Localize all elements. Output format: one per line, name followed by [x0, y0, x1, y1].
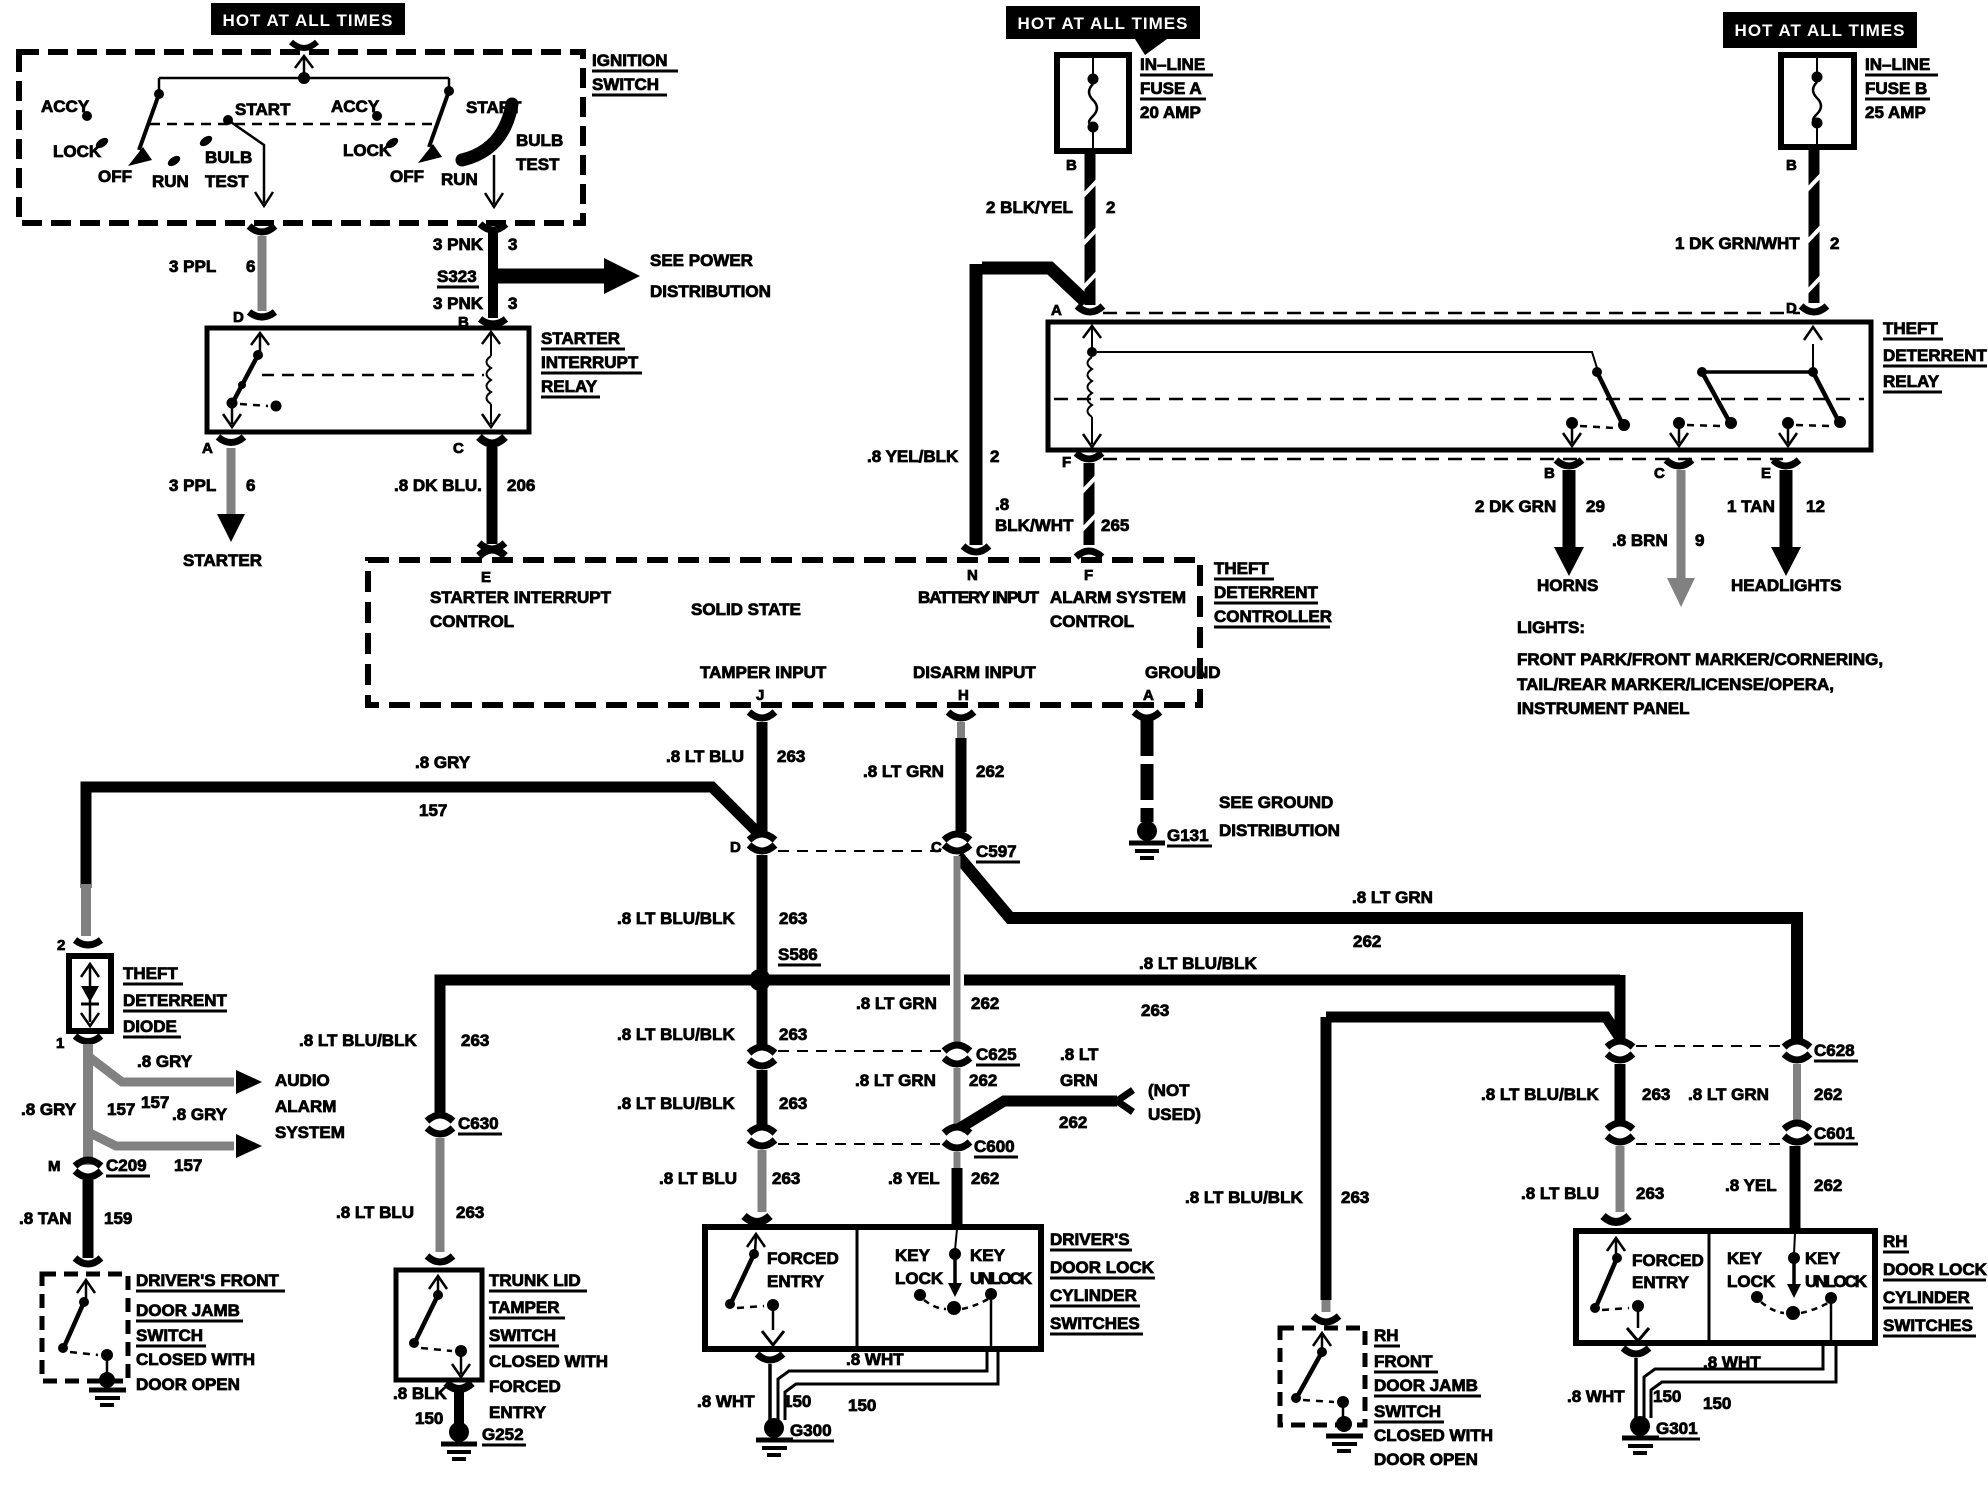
position labels right bank: [331, 97, 563, 189]
wire .8 LT BLU/BLK 263 down: [1321, 1017, 1332, 1300]
svg-text:.8 LT BLU: .8 LT BLU: [336, 1203, 414, 1222]
svg-text:262: 262: [1814, 1085, 1842, 1104]
svg-text:.8 BRN: .8 BRN: [1612, 531, 1668, 550]
svg-text:.8 GRY: .8 GRY: [21, 1100, 77, 1119]
svg-text:.8 LT BLU/BLK: .8 LT BLU/BLK: [1185, 1188, 1303, 1207]
relay coil: [482, 332, 500, 427]
svg-text:TAMPER: TAMPER: [489, 1298, 560, 1317]
svg-text:F: F: [1062, 454, 1071, 471]
svg-text:CLOSED WITH: CLOSED WITH: [1374, 1426, 1493, 1445]
svg-text:CYLINDER: CYLINDER: [1883, 1288, 1970, 1307]
wire below S586: [757, 985, 768, 1048]
theft deterrent relay box: [1048, 322, 1871, 450]
starter interrupt relay label: [541, 329, 642, 397]
connector under ignition left output: [249, 226, 275, 232]
svg-text:KEY: KEY: [1805, 1249, 1841, 1268]
svg-text:.8 LT: .8 LT: [1060, 1045, 1099, 1064]
ignition switch dashed box: [19, 52, 583, 223]
svg-text:.8 GRY: .8 GRY: [415, 753, 471, 772]
svg-text:RELAY: RELAY: [1883, 372, 1940, 391]
svg-text:TAIL/REAR MARKER/LICENSE/OPERA: TAIL/REAR MARKER/LICENSE/OPERA,: [1517, 675, 1834, 694]
svg-text:DISARM INPUT: DISARM INPUT: [913, 663, 1036, 682]
svg-text:C: C: [1654, 465, 1665, 482]
svg-text:FORCED: FORCED: [489, 1377, 561, 1396]
svg-text:UNLOCK: UNLOCK: [970, 1269, 1033, 1288]
svg-text:DOOR LOCK: DOOR LOCK: [1883, 1260, 1988, 1279]
wire .8 LT GRN 262 (gray): [954, 1068, 961, 1128]
svg-text:.8 WHT: .8 WHT: [1567, 1387, 1625, 1406]
svg-text:STARTER: STARTER: [541, 329, 620, 348]
svg-text:159: 159: [104, 1209, 132, 1228]
svg-text:HEADLIGHTS: HEADLIGHTS: [1731, 576, 1842, 595]
position labels left bank: [41, 97, 291, 191]
svg-text:CONTROL: CONTROL: [1050, 612, 1134, 631]
svg-text:DRIVER'S: DRIVER'S: [1050, 1230, 1130, 1249]
svg-text:6: 6: [246, 257, 255, 276]
svg-text:OFF: OFF: [98, 167, 132, 186]
wire .8 GRY 157 long bus: [86, 787, 758, 888]
connector pair at C601 row (left): [1607, 1123, 1633, 1129]
svg-text:D: D: [730, 839, 741, 856]
svg-text:.8 YEL: .8 YEL: [1725, 1176, 1777, 1195]
svg-text:LOCK: LOCK: [53, 142, 102, 161]
svg-text:D: D: [233, 309, 244, 326]
svg-text:157: 157: [174, 1156, 202, 1175]
svg-text:29: 29: [1586, 497, 1605, 516]
svg-text:FRONT PARK/FRONT MARKER/CORNER: FRONT PARK/FRONT MARKER/CORNERING,: [1517, 650, 1883, 669]
svg-text:USED): USED): [1148, 1105, 1201, 1124]
driver's front door jamb switch dashed box: [42, 1274, 128, 1381]
svg-text:C601: C601: [1814, 1124, 1855, 1143]
svg-text:A: A: [1143, 687, 1154, 704]
hot-at-all-times box 1: [211, 3, 405, 35]
svg-text:STARTER: STARTER: [183, 551, 262, 570]
connector C600: [944, 1127, 970, 1133]
relay coil: [1083, 326, 1101, 447]
svg-text:D: D: [1786, 300, 1797, 317]
svg-text:DIODE: DIODE: [123, 1017, 177, 1036]
svg-text:IN–LINE: IN–LINE: [1140, 55, 1205, 74]
svg-text:F: F: [1084, 567, 1093, 584]
relay internal switch: [223, 333, 282, 427]
driver's front door jamb switch label: [136, 1271, 285, 1394]
svg-text:OFF: OFF: [390, 167, 424, 186]
svg-text:G300: G300: [790, 1421, 832, 1440]
ground wire from pin A: [1141, 720, 1154, 822]
svg-text:LOCK: LOCK: [343, 141, 392, 160]
wire .8 YEL 262 into cylinder switch: [954, 1152, 961, 1170]
heavy actuator swoosh in START position: [462, 104, 512, 160]
wire .8 BLK 150 to ground: [446, 1383, 472, 1389]
svg-text:SEE POWER: SEE POWER: [650, 251, 753, 270]
dashed link D to C597: [778, 850, 942, 852]
svg-text:B: B: [1066, 157, 1077, 174]
svg-text:THEFT: THEFT: [123, 964, 178, 983]
gry splice wires to audio alarm system: [88, 1044, 262, 1165]
svg-text:9: 9: [1695, 531, 1704, 550]
svg-text:LIGHTS:: LIGHTS:: [1517, 618, 1585, 637]
svg-text:FUSE B: FUSE B: [1865, 79, 1927, 98]
svg-text:RH: RH: [1883, 1232, 1908, 1251]
connector C630: [427, 1115, 453, 1121]
svg-text:2: 2: [990, 447, 999, 466]
svg-text:SWITCH: SWITCH: [1374, 1402, 1441, 1421]
svg-text:CYLINDER: CYLINDER: [1050, 1286, 1137, 1305]
svg-text:DISTRIBUTION: DISTRIBUTION: [1219, 821, 1340, 840]
theft deterrent diode: [69, 956, 111, 1031]
svg-text:TRUNK LID: TRUNK LID: [489, 1271, 581, 1290]
controller pin labels: [430, 567, 1221, 704]
ground G131: [1129, 821, 1212, 858]
rh front door jamb switch dashed box: [1280, 1328, 1365, 1425]
wire .8 LT BLU/BLK 263 bus left to C630: [440, 980, 752, 1116]
svg-text:BULB: BULB: [205, 148, 252, 167]
svg-text:3 PNK: 3 PNK: [433, 235, 484, 254]
svg-text:3 PNK: 3 PNK: [433, 294, 484, 313]
node E theft deterrent relay / headlights output: [1727, 460, 1842, 595]
right switch blade: [418, 78, 454, 163]
svg-text:IN–LINE: IN–LINE: [1865, 55, 1930, 74]
svg-text:.8 WHT: .8 WHT: [1703, 1353, 1761, 1372]
left switch blade: [128, 78, 164, 166]
svg-text:3: 3: [508, 235, 517, 254]
svg-text:ENTRY: ENTRY: [767, 1272, 825, 1291]
starter interrupt relay box: [207, 328, 529, 432]
svg-text:TAMPER INPUT: TAMPER INPUT: [700, 663, 827, 682]
wire bus inside ignition switch: [159, 77, 449, 80]
svg-text:263: 263: [777, 747, 805, 766]
svg-text:263: 263: [779, 1025, 807, 1044]
connector C625: [944, 1045, 970, 1051]
svg-text:.8 LT GRN: .8 LT GRN: [855, 1071, 936, 1090]
relay internal dashed line: [1054, 398, 1864, 401]
svg-text:DETERRENT: DETERRENT: [1214, 583, 1319, 602]
wire 3 PPL (gray): [258, 236, 267, 311]
svg-text:2: 2: [1106, 198, 1115, 217]
svg-text:263: 263: [1141, 1001, 1169, 1020]
svg-text:.8 GRY: .8 GRY: [137, 1052, 193, 1071]
node C theft deterrent relay / brn output: [1612, 460, 1704, 607]
svg-text:ENTRY: ENTRY: [1632, 1273, 1690, 1292]
rh forced entry switch: [1590, 1238, 1704, 1341]
svg-text:3 PPL: 3 PPL: [169, 476, 216, 495]
svg-text:(NOT: (NOT: [1148, 1081, 1190, 1100]
svg-text:C628: C628: [1814, 1041, 1855, 1060]
svg-text:.8 LT BLU/BLK: .8 LT BLU/BLK: [617, 1025, 735, 1044]
svg-text:STARTER INTERRUPT: STARTER INTERRUPT: [430, 588, 612, 607]
svg-text:.8 LT BLU/BLK: .8 LT BLU/BLK: [617, 1094, 735, 1113]
internal dashed line: [150, 123, 438, 126]
svg-text:GROUND: GROUND: [1145, 663, 1221, 682]
connector pair at C600 row (left): [749, 1127, 775, 1133]
svg-text:.8: .8: [995, 495, 1009, 514]
svg-text:262: 262: [971, 1169, 999, 1188]
svg-text:ALARM: ALARM: [275, 1097, 336, 1116]
svg-text:CONTROL: CONTROL: [430, 612, 514, 631]
svg-text:G131: G131: [1167, 826, 1209, 845]
svg-text:.8 WHT: .8 WHT: [846, 1350, 904, 1369]
connector C628: [1784, 1041, 1810, 1047]
svg-text:LOCK: LOCK: [895, 1269, 944, 1288]
svg-text:20 AMP: 20 AMP: [1140, 103, 1201, 122]
svg-text:BULB: BULB: [516, 131, 563, 150]
rh jamb feed bus: [1326, 1017, 1620, 1038]
wire .8 LT BLU/BLK 263 bus right: [768, 975, 950, 986]
relay internal dashed link: [262, 374, 484, 377]
svg-text:HOT AT ALL TIMES: HOT AT ALL TIMES: [1018, 14, 1189, 33]
svg-text:.8 LT BLU: .8 LT BLU: [659, 1169, 737, 1188]
svg-text:ALARM SYSTEM: ALARM SYSTEM: [1050, 588, 1186, 607]
controller title: [1214, 559, 1332, 627]
svg-text:C: C: [931, 839, 942, 856]
wire .8 LT BLU/BLK 263: [1615, 1064, 1626, 1124]
svg-text:DRIVER'S FRONT: DRIVER'S FRONT: [136, 1271, 279, 1290]
connector A below controller: [1134, 712, 1160, 718]
wire .8 BLK/WHT 265 (crossed): [995, 463, 1129, 557]
svg-text:THEFT: THEFT: [1214, 559, 1269, 578]
svg-text:.8 LT BLU/BLK: .8 LT BLU/BLK: [1481, 1085, 1599, 1104]
svg-text:.8 LT GRN: .8 LT GRN: [863, 762, 944, 781]
svg-text:E: E: [481, 569, 491, 586]
svg-text:RH: RH: [1374, 1326, 1399, 1345]
dashed link to C625: [778, 1050, 944, 1052]
svg-text:12: 12: [1806, 497, 1825, 516]
wire .8 YEL 262 into rh cylinder: [1790, 1146, 1801, 1231]
svg-text:263: 263: [779, 909, 807, 928]
svg-text:2 DK GRN: 2 DK GRN: [1475, 497, 1556, 516]
wire .8 LT BLU/BLK 263 to S586: [757, 855, 768, 978]
svg-text:.8 GRY: .8 GRY: [172, 1105, 228, 1124]
svg-text:265: 265: [1101, 516, 1129, 535]
relay switch 3: [1779, 327, 1846, 446]
svg-text:1: 1: [56, 1035, 64, 1052]
svg-text:DETERRENT: DETERRENT: [123, 991, 228, 1010]
svg-text:263: 263: [772, 1169, 800, 1188]
svg-text:ACCY: ACCY: [331, 97, 380, 116]
svg-text:3 PPL: 3 PPL: [169, 257, 216, 276]
wire .8 YEL/BLK branch to battery input: [867, 264, 1086, 545]
theft deterrent diode label: [123, 964, 228, 1037]
connector C601: [1784, 1123, 1810, 1129]
in-line fuse A: [1057, 55, 1213, 151]
svg-text:UNLOCK: UNLOCK: [1805, 1272, 1868, 1291]
relay switch 2: [1670, 367, 1813, 446]
svg-text:.8 DK BLU.: .8 DK BLU.: [394, 476, 482, 495]
svg-text:IGNITION: IGNITION: [592, 51, 668, 70]
rh door lock cylinder switches label: [1883, 1232, 1988, 1336]
splice arrow to see power distribution: [497, 251, 771, 301]
svg-text:HOT AT ALL TIMES: HOT AT ALL TIMES: [223, 11, 394, 30]
dashed link to C628: [1636, 1045, 1780, 1047]
svg-text:ACCY: ACCY: [41, 97, 90, 116]
rh front door jamb switch label: [1374, 1326, 1493, 1469]
dashed link F to outputs below relay: [1103, 458, 1783, 461]
svg-text:M: M: [48, 1158, 61, 1175]
svg-text:262: 262: [969, 1071, 997, 1090]
svg-text:263: 263: [456, 1203, 484, 1222]
svg-text:E: E: [1761, 465, 1771, 482]
dashed link A to D above relay: [1103, 312, 1800, 315]
in-line fuse B: [1781, 55, 1938, 147]
svg-text:2: 2: [1830, 234, 1839, 253]
node B theft deterrent relay / horns output: [1475, 460, 1605, 595]
svg-text:GRN: GRN: [1060, 1071, 1098, 1090]
svg-text:ENTRY: ENTRY: [489, 1403, 547, 1422]
wire .8 LT BLU 263 from J: [757, 722, 768, 834]
ground G252: [441, 1422, 526, 1459]
svg-text:SWITCH: SWITCH: [592, 75, 659, 94]
wire .8 LT BLU 263 (gray): [436, 1138, 445, 1252]
svg-text:.8 LT GRN: .8 LT GRN: [1688, 1085, 1769, 1104]
trunk lid tamper switch box: [396, 1270, 482, 1380]
svg-text:.8 WHT: .8 WHT: [697, 1392, 755, 1411]
dashed link to C601: [1636, 1143, 1780, 1145]
svg-text:H: H: [958, 687, 969, 704]
svg-text:2 BLK/YEL: 2 BLK/YEL: [986, 198, 1073, 217]
svg-text:1 TAN: 1 TAN: [1727, 497, 1775, 516]
wire 1 DK GRN/WHT 2 (crossed): [1675, 147, 1839, 303]
svg-text:150: 150: [1653, 1387, 1681, 1406]
svg-text:150: 150: [848, 1396, 876, 1415]
driver's door lock cylinder switches label: [1050, 1230, 1155, 1334]
svg-text:262: 262: [1814, 1176, 1842, 1195]
start contact wire to connector: [228, 120, 264, 203]
svg-text:DOOR JAMB: DOOR JAMB: [1374, 1376, 1478, 1395]
svg-text:BLK/WHT: BLK/WHT: [995, 516, 1074, 535]
svg-text:TEST: TEST: [516, 155, 560, 174]
svg-text:SYSTEM: SYSTEM: [275, 1123, 345, 1142]
theft deterrent relay label: [1883, 319, 1988, 392]
svg-text:START: START: [235, 100, 291, 119]
svg-text:.8 LT BLU/BLK: .8 LT BLU/BLK: [617, 909, 735, 928]
connector H below controller: [948, 712, 974, 718]
svg-text:25 AMP: 25 AMP: [1865, 103, 1926, 122]
rh key lock / key unlock switch: [1727, 1233, 1868, 1340]
svg-text:A: A: [202, 440, 213, 457]
wire .8 DK BLU 206: [487, 447, 498, 544]
svg-text:SWITCH: SWITCH: [136, 1326, 203, 1345]
svg-text:DOOR OPEN: DOOR OPEN: [136, 1375, 240, 1394]
svg-text:.8 LT GRN: .8 LT GRN: [856, 994, 937, 1013]
svg-text:S323: S323: [437, 267, 477, 286]
svg-text:G301: G301: [1656, 1419, 1698, 1438]
connector J below controller: [749, 712, 775, 718]
svg-text:B: B: [1786, 157, 1797, 174]
svg-text:2: 2: [57, 937, 65, 954]
connector pair above C601 (left column): [1607, 1041, 1633, 1047]
svg-text:C209: C209: [106, 1156, 147, 1175]
svg-text:263: 263: [1636, 1184, 1664, 1203]
svg-text:SWITCHES: SWITCHES: [1050, 1314, 1140, 1333]
splice S586: [749, 969, 771, 991]
svg-text:DOOR LOCK: DOOR LOCK: [1050, 1258, 1155, 1277]
lights destination note: [1517, 618, 1883, 718]
svg-text:262: 262: [1059, 1113, 1087, 1132]
svg-text:157: 157: [141, 1093, 169, 1112]
svg-text:.8 BLK: .8 BLK: [393, 1384, 448, 1403]
svg-text:S586: S586: [778, 945, 818, 964]
wire .8 LT GRN 262 (gray): [1793, 1064, 1801, 1124]
dashed link to C600: [778, 1143, 940, 1145]
svg-text:KEY: KEY: [970, 1246, 1006, 1265]
svg-text:C630: C630: [458, 1114, 499, 1133]
svg-text:RELAY: RELAY: [541, 377, 598, 396]
svg-text:FUSE A: FUSE A: [1140, 79, 1202, 98]
wire .8 LT BLU 263 (gray) into rh cylinder: [1616, 1146, 1625, 1212]
trunk lid tamper switch label: [489, 1271, 608, 1422]
svg-text:B: B: [1544, 465, 1555, 482]
wire feed arrow into ignition switch: [295, 56, 313, 84]
wire 2 BLK/YEL 2 (crossed): [986, 151, 1115, 305]
connector below hot box 1: [291, 42, 317, 48]
svg-text:.8 TAN: .8 TAN: [19, 1209, 72, 1228]
svg-text:KEY: KEY: [895, 1246, 931, 1265]
svg-text:263: 263: [779, 1094, 807, 1113]
svg-text:DOOR OPEN: DOOR OPEN: [1374, 1450, 1478, 1469]
forced entry switch: [725, 1234, 839, 1345]
svg-text:SWITCH: SWITCH: [489, 1326, 556, 1345]
svg-text:DOOR JAMB: DOOR JAMB: [136, 1301, 240, 1320]
svg-text:THEFT: THEFT: [1883, 319, 1938, 338]
wht ground wiring below driver's box: [697, 1350, 998, 1455]
svg-text:262: 262: [976, 762, 1004, 781]
connector N into controller: [963, 546, 989, 552]
svg-text:150: 150: [1703, 1394, 1731, 1413]
svg-text:FRONT: FRONT: [1374, 1352, 1433, 1371]
svg-text:.8 YEL: .8 YEL: [888, 1169, 940, 1188]
wire .8 LT BLU/BLK 263 vertical at right: [1615, 975, 1626, 1044]
svg-text:206: 206: [507, 476, 535, 495]
svg-text:C597: C597: [976, 842, 1017, 861]
svg-text:AUDIO: AUDIO: [275, 1071, 330, 1090]
svg-text:CONTROLLER: CONTROLLER: [1214, 607, 1332, 626]
svg-text:FORCED: FORCED: [767, 1249, 839, 1268]
svg-text:CLOSED WITH: CLOSED WITH: [489, 1352, 608, 1371]
svg-text:C600: C600: [974, 1137, 1015, 1156]
svg-text:150: 150: [415, 1409, 443, 1428]
svg-text:263: 263: [1341, 1188, 1369, 1207]
svg-text:.8 YEL/BLK: .8 YEL/BLK: [867, 447, 959, 466]
svg-text:SOLID STATE: SOLID STATE: [691, 600, 801, 619]
svg-text:.8 LT GRN: .8 LT GRN: [1352, 888, 1433, 907]
wire 3 PPL to starter (gray): [227, 448, 236, 516]
svg-text:SEE GROUND: SEE GROUND: [1219, 793, 1333, 812]
svg-text:J: J: [756, 687, 764, 704]
svg-text:.8 LT BLU: .8 LT BLU: [666, 747, 744, 766]
svg-text:.8 LT BLU/BLK: .8 LT BLU/BLK: [299, 1031, 417, 1050]
svg-text:1 DK GRN/WHT: 1 DK GRN/WHT: [1675, 234, 1800, 253]
svg-text:157: 157: [419, 801, 447, 820]
wht ground wiring below rh box: [1567, 1346, 1836, 1453]
svg-text:BATTERY INPUT: BATTERY INPUT: [918, 588, 1040, 607]
svg-text:TEST: TEST: [205, 172, 249, 191]
wire .8 LT GRN 262 down the middle (gray): [954, 856, 961, 1046]
svg-text:HORNS: HORNS: [1537, 576, 1598, 595]
svg-text:.8 LT BLU/BLK: .8 LT BLU/BLK: [1139, 954, 1257, 973]
wire .8 LT BLU 263 into cylinder switch (gray): [758, 1150, 767, 1212]
hot-at-all-times box 3: [1723, 12, 1917, 48]
svg-text:RUN: RUN: [152, 172, 189, 191]
wire .8 LT GRN 262 from H: [957, 722, 965, 740]
key lock / key unlock switch: [895, 1229, 1033, 1346]
svg-text:KEY: KEY: [1727, 1249, 1763, 1268]
svg-text:FORCED: FORCED: [1632, 1251, 1704, 1270]
svg-text:C: C: [453, 440, 464, 457]
wire 3 PNK with S323 splice: [488, 232, 498, 318]
svg-text:.8 LT BLU: .8 LT BLU: [1521, 1184, 1599, 1203]
svg-text:6: 6: [246, 476, 255, 495]
svg-text:263: 263: [1642, 1085, 1670, 1104]
